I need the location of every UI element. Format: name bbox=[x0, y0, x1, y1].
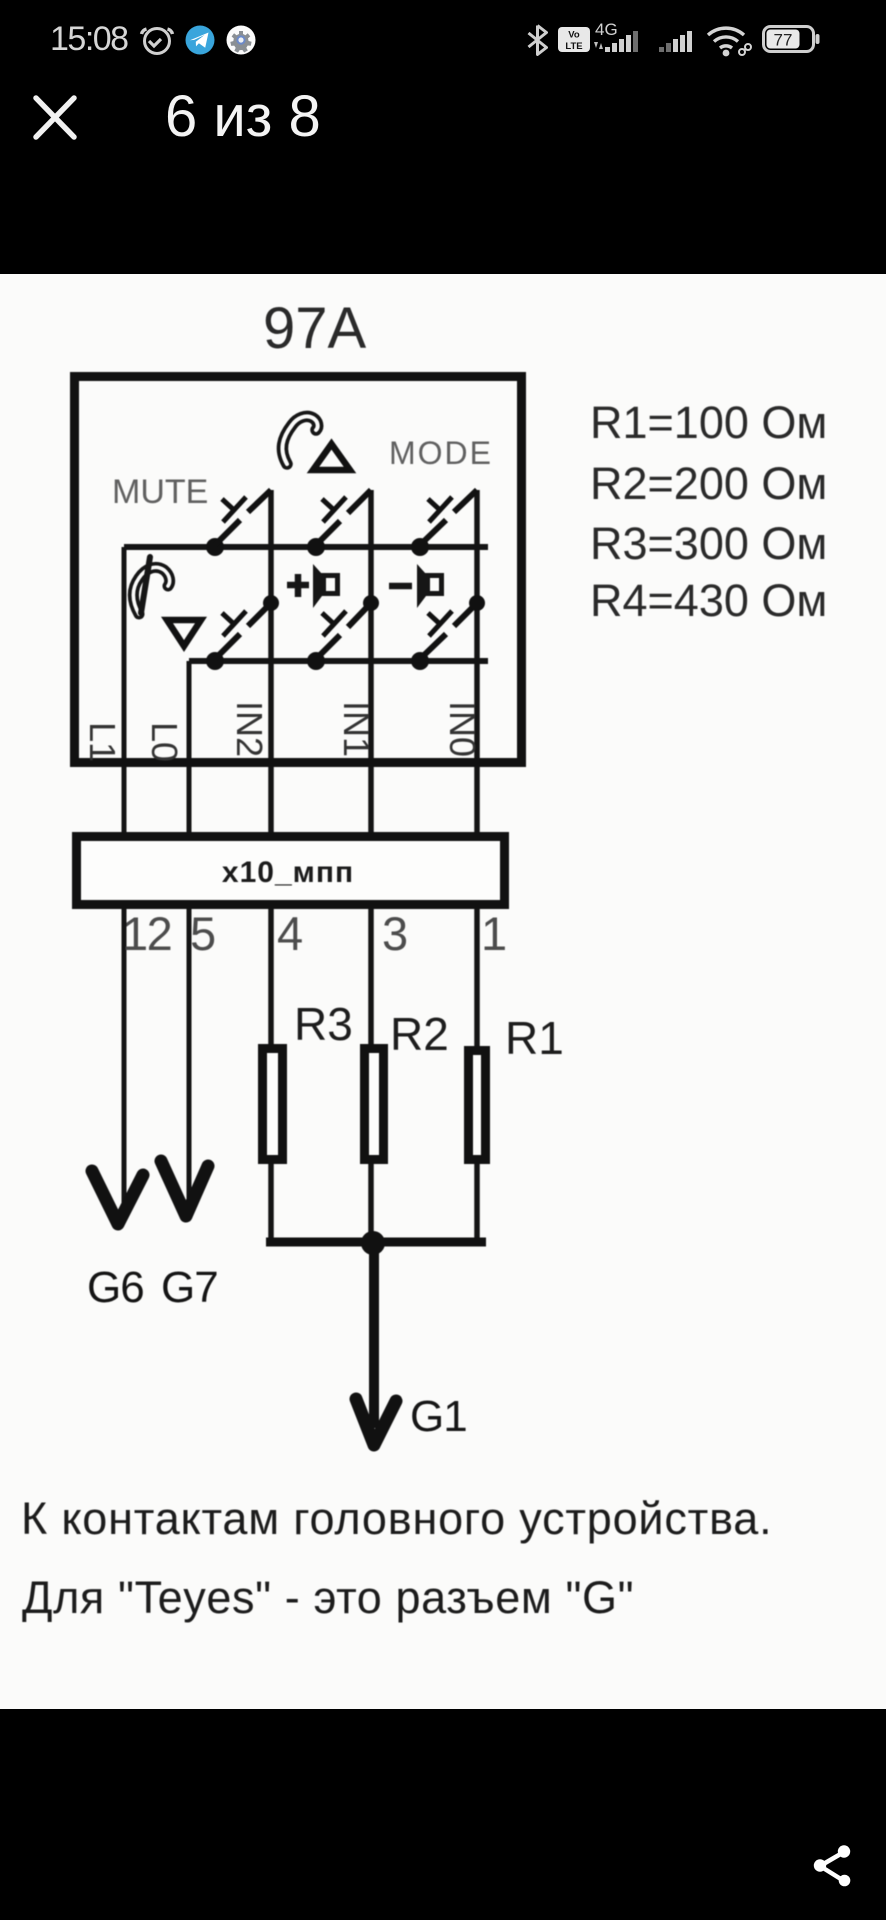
title 97A bbox=[263, 296, 367, 361]
svg-text:4G: 4G bbox=[595, 20, 618, 39]
svg-text:1: 1 bbox=[481, 907, 507, 960]
junction node bbox=[361, 1231, 385, 1255]
pin label IN0 bbox=[442, 701, 483, 757]
svg-text:G6: G6 bbox=[87, 1263, 144, 1312]
value label R1=100 Om bbox=[590, 397, 827, 448]
svg-text:R3=300 Ом: R3=300 Ом bbox=[590, 518, 827, 569]
svg-text:5: 5 bbox=[190, 907, 216, 960]
resistor R2 bbox=[365, 1049, 384, 1160]
svg-text:IN0: IN0 bbox=[442, 701, 483, 757]
value label R2=200 Om bbox=[590, 458, 827, 509]
alarm icon bbox=[139, 22, 175, 56]
settings gear icon bbox=[226, 25, 256, 55]
ground arrow G1 bbox=[356, 1247, 396, 1445]
label G1 bbox=[410, 1392, 467, 1441]
resistor R3 bbox=[263, 1049, 283, 1160]
svg-text:R2: R2 bbox=[390, 1008, 449, 1060]
icon triangle up bbox=[313, 444, 350, 470]
icon volume minus bbox=[389, 564, 442, 608]
svg-text:97A: 97A bbox=[263, 296, 367, 361]
svg-text:G1: G1 bbox=[410, 1392, 467, 1441]
svg-text:R2=200 Ом: R2=200 Ом bbox=[590, 458, 827, 509]
battery 77 bbox=[762, 25, 820, 53]
icon volume plus bbox=[287, 564, 338, 608]
switch S2 phone answer bbox=[307, 490, 371, 556]
svg-text:Для "Teyes" - это разъем "G": Для "Teyes" - это разъем "G" bbox=[22, 1572, 634, 1623]
keypad box 97A bbox=[75, 377, 522, 763]
wifi icon bbox=[706, 25, 752, 57]
VoLTE badge bbox=[557, 26, 591, 53]
svg-text:R1: R1 bbox=[505, 1012, 564, 1064]
label G6 bbox=[87, 1263, 144, 1312]
svg-text:MODE: MODE bbox=[389, 435, 493, 471]
svg-text:R4=430 Ом: R4=430 Ом bbox=[590, 575, 827, 626]
clock time bbox=[50, 20, 128, 59]
telegram icon bbox=[185, 25, 215, 55]
svg-text:R3: R3 bbox=[294, 998, 353, 1050]
wire upper bus L1 bbox=[124, 544, 488, 550]
wire IN2 column bbox=[268, 490, 274, 1240]
pin label IN1 bbox=[336, 701, 377, 757]
arrow G7 bbox=[161, 1161, 208, 1216]
4G signal cluster bbox=[592, 18, 654, 56]
wire L0 vertical bbox=[187, 661, 192, 1200]
wire IN0 column bbox=[474, 490, 480, 1240]
icon phone answer bbox=[282, 416, 317, 464]
wire lower bus L0 bbox=[189, 658, 488, 664]
switch S3 MODE bbox=[411, 490, 477, 556]
caption line 2 bbox=[22, 1572, 634, 1623]
svg-text:IN1: IN1 bbox=[336, 701, 377, 757]
label R3 bbox=[294, 998, 353, 1050]
svg-text:х10_мпп: х10_мпп bbox=[222, 856, 354, 889]
switch S5 volume plus bbox=[307, 595, 379, 670]
svg-text:G7: G7 bbox=[161, 1263, 218, 1312]
svg-text:77: 77 bbox=[774, 31, 793, 50]
status bar bbox=[0, 0, 886, 70]
svg-text:12: 12 bbox=[122, 907, 171, 960]
svg-text:MUTE: MUTE bbox=[112, 473, 208, 511]
svg-text:IN2: IN2 bbox=[229, 701, 270, 757]
wire L1 vertical bbox=[122, 547, 127, 1210]
label MODE bbox=[389, 435, 493, 471]
wire IN1 column bbox=[368, 490, 374, 1240]
pin number 4 bbox=[277, 907, 303, 960]
value label R4=430 Om bbox=[590, 575, 827, 626]
pin label IN2 bbox=[229, 701, 270, 757]
svg-text:R1=100 Ом: R1=100 Ом bbox=[590, 397, 827, 448]
label G7 bbox=[161, 1263, 218, 1312]
bluetooth icon bbox=[524, 24, 548, 56]
page counter bbox=[165, 83, 321, 150]
pin number 12 bbox=[122, 907, 171, 960]
svg-text:LTE: LTE bbox=[565, 41, 582, 52]
value label R3=300 Om bbox=[590, 518, 827, 569]
switch S1 MUTE bbox=[206, 490, 271, 556]
share icon bbox=[806, 1838, 858, 1894]
pin number 3 bbox=[382, 907, 408, 960]
second SIM signal bars bbox=[659, 30, 705, 56]
pin number 1 bbox=[481, 907, 507, 960]
svg-text:L1: L1 bbox=[82, 722, 123, 762]
switch S4 phone hangup bbox=[206, 595, 279, 670]
label MUTE bbox=[112, 473, 208, 511]
resistor R1 bbox=[469, 1051, 486, 1160]
header bar bbox=[0, 80, 886, 170]
svg-text:3: 3 bbox=[382, 907, 408, 960]
switch S6 volume minus bbox=[411, 595, 485, 670]
icon triangle down bbox=[167, 620, 201, 646]
svg-text:К контактам головного устройст: К контактам головного устройства. bbox=[21, 1493, 772, 1544]
icon phone hangup bbox=[133, 557, 169, 614]
close X button bbox=[33, 95, 77, 140]
svg-text:4: 4 bbox=[277, 907, 303, 960]
caption line 1 bbox=[21, 1493, 772, 1544]
white schematic image area bbox=[0, 274, 886, 1709]
arrow G6 bbox=[92, 1171, 143, 1224]
svg-text:L0: L0 bbox=[144, 722, 185, 762]
label R2 bbox=[390, 1008, 449, 1060]
svg-text:Vo: Vo bbox=[568, 30, 580, 41]
wire ground join bbox=[266, 1238, 486, 1247]
label R1 bbox=[505, 1012, 564, 1064]
pin label L0 bbox=[144, 722, 185, 762]
pin number 5 bbox=[190, 907, 216, 960]
pin label L1 bbox=[82, 722, 123, 762]
connector X10 bbox=[77, 837, 505, 905]
